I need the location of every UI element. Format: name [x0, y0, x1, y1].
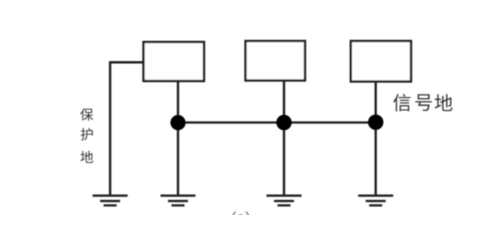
wire U1-left to protective ground (horizontal): [110, 61, 143, 63]
wire protective ground vertical: [109, 61, 111, 195]
ground G4: [358, 196, 393, 206]
unit box U2: [246, 41, 306, 81]
wire ground bus horizontal: [178, 121, 376, 123]
junction node A (dot): [170, 115, 185, 130]
unit box U3: [351, 41, 411, 82]
ground G3: [267, 196, 302, 206]
label 信号地 char 地: [435, 94, 453, 111]
label 保护地 char 地: [80, 151, 93, 163]
label 信号地 char 号: [415, 94, 432, 111]
unit box U1: [144, 42, 205, 81]
ground G1 (protective earth): [93, 196, 128, 206]
label 信号地 (signal ground) char 信: [393, 94, 410, 112]
svg-text:(a): (a): [231, 210, 251, 215]
junction node B (dot): [276, 115, 291, 130]
wire U3 bottom to ground bus vertical: [375, 82, 377, 196]
label 保护地 (protective ground) char 保: [80, 108, 93, 120]
ground G2: [161, 196, 196, 206]
junction node C (dot): [368, 115, 383, 130]
label 保护地 char 护: [81, 128, 93, 141]
wire U1 bottom to ground bus vertical: [177, 81, 179, 195]
wire U2 bottom to ground bus vertical: [283, 81, 285, 196]
